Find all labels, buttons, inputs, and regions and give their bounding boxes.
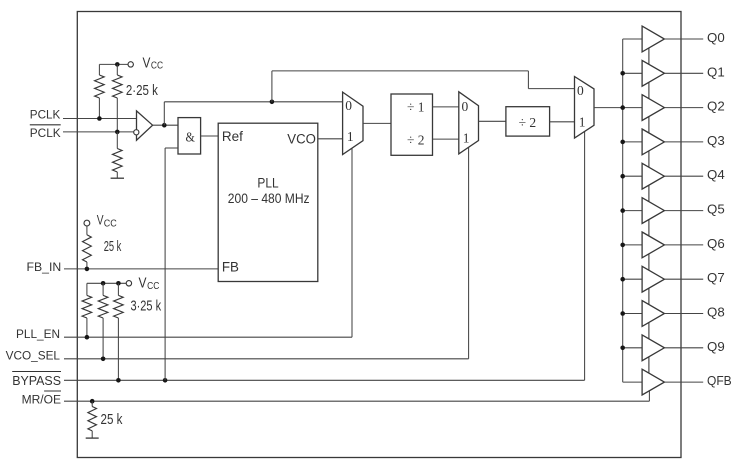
svg-text:PCLK: PCLK bbox=[30, 126, 61, 140]
svg-text:&: & bbox=[186, 130, 196, 145]
svg-text:1: 1 bbox=[463, 130, 470, 145]
svg-text:Q6: Q6 bbox=[707, 236, 725, 251]
svg-text:CC: CC bbox=[151, 61, 164, 72]
svg-text:200 – 480 MHz: 200 – 480 MHz bbox=[228, 191, 310, 206]
svg-text:PLL_EN: PLL_EN bbox=[16, 327, 60, 341]
svg-text:Q0: Q0 bbox=[707, 30, 725, 45]
svg-text:V: V bbox=[143, 55, 151, 72]
svg-text:QFB: QFB bbox=[707, 373, 732, 388]
svg-text:PCLK: PCLK bbox=[30, 108, 61, 122]
svg-text:0: 0 bbox=[462, 99, 469, 114]
svg-text:Ref: Ref bbox=[222, 129, 243, 144]
svg-text:0: 0 bbox=[577, 83, 584, 98]
svg-text:÷ 1: ÷ 1 bbox=[407, 101, 425, 116]
svg-text:FB_IN: FB_IN bbox=[27, 260, 62, 274]
svg-text:3·25 k: 3·25 k bbox=[131, 299, 162, 315]
svg-text:MR/OE: MR/OE bbox=[22, 392, 61, 406]
svg-text:CC: CC bbox=[104, 219, 117, 230]
svg-text:Q5: Q5 bbox=[707, 202, 725, 217]
svg-text:Q2: Q2 bbox=[707, 99, 725, 114]
svg-text:Q8: Q8 bbox=[707, 305, 725, 320]
svg-text:PLL: PLL bbox=[257, 176, 279, 191]
svg-text:25 k: 25 k bbox=[104, 238, 122, 255]
svg-text:Q1: Q1 bbox=[707, 64, 725, 79]
svg-text:÷ 2: ÷ 2 bbox=[407, 134, 425, 149]
svg-text:2·25 k: 2·25 k bbox=[126, 83, 159, 99]
svg-text:1: 1 bbox=[347, 129, 354, 144]
svg-text:0: 0 bbox=[345, 98, 352, 113]
svg-text:Q7: Q7 bbox=[707, 270, 725, 285]
svg-text:÷ 2: ÷ 2 bbox=[519, 116, 537, 131]
svg-text:Q4: Q4 bbox=[707, 167, 725, 182]
svg-text:CC: CC bbox=[147, 281, 160, 292]
svg-text:Q9: Q9 bbox=[707, 339, 725, 354]
svg-text:VCO: VCO bbox=[287, 132, 316, 147]
svg-text:BYPASS: BYPASS bbox=[12, 373, 61, 388]
svg-text:Q3: Q3 bbox=[707, 133, 725, 148]
svg-text:V: V bbox=[139, 274, 147, 291]
svg-text:VCO_SEL: VCO_SEL bbox=[6, 349, 61, 363]
svg-text:25 k: 25 k bbox=[101, 412, 124, 428]
svg-text:1: 1 bbox=[579, 114, 586, 129]
svg-text:FB: FB bbox=[222, 260, 239, 275]
